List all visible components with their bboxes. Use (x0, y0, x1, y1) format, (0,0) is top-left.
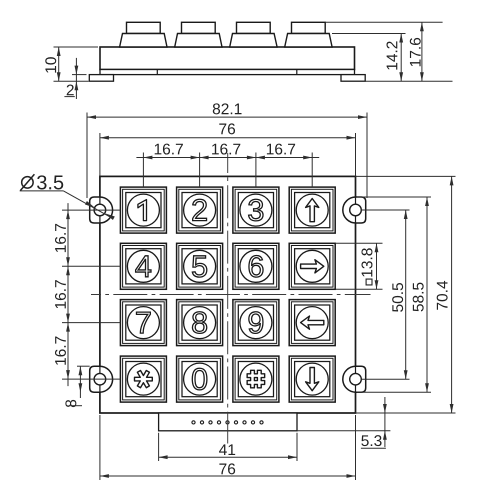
dimension 76 top text (219, 123, 235, 134)
dimension 16.7 text c (267, 144, 295, 155)
bottom-left mounting ear (90, 366, 113, 392)
key up arrow (289, 187, 335, 233)
key 5 (177, 243, 223, 289)
dimension 76 bottom text (219, 463, 235, 474)
dimension 17.6 text (410, 38, 421, 66)
key 1 (120, 187, 166, 233)
vertical centerline (227, 153, 229, 444)
dimension 41 line (159, 456, 297, 458)
row extension lines left (62, 209, 120, 211)
side view bottom strip (100, 70, 355, 75)
bottom-right mounting ear (343, 366, 366, 392)
dimension 58.5 text (413, 283, 424, 312)
diameter 3.5 leader (20, 190, 64, 192)
diameter 3.5 text (37, 175, 63, 189)
dimension 16.7 text a (155, 144, 183, 155)
dimension 14.2 extension lines (332, 33, 406, 35)
mounting hole top-right diameter 3.5 (350, 204, 362, 216)
frame edge through left ears (99, 197, 101, 223)
dimension 13.8 line (376, 243, 378, 289)
mounting hole bottom-left diameter 3.5 (94, 373, 106, 385)
dimension 2 extension line (72, 74, 87, 76)
dimension 2 text (67, 84, 74, 95)
dimension 70.4 text (437, 281, 448, 310)
diameter 3.5 symbol (22, 177, 34, 189)
dimension 16.7 rows line (67, 203, 69, 386)
dimension 16.7 rows text c (55, 337, 66, 365)
side view button 4 trapezoid base (285, 34, 332, 48)
dimension 17.6 extension line (326, 21, 443, 23)
key 6 (233, 243, 279, 289)
dimension 10 text (45, 57, 56, 72)
key 0 (177, 356, 223, 402)
dimension 16.7 columns line (136, 157, 319, 159)
frame edge through right ears (355, 197, 357, 223)
key 4 (120, 243, 166, 289)
dimension 82.1 extension lines (86, 113, 88, 199)
dimension 14.2 line (400, 34, 402, 82)
side view button 3 trapezoid base (230, 34, 277, 48)
top-right mounting ear (343, 197, 366, 223)
dimension 70.4 line (451, 176, 453, 413)
top-left mounting ear (90, 197, 113, 223)
dimension 50.5 extension lines (362, 209, 410, 211)
dimension 70.4 extension lines (356, 175, 456, 177)
key 8 (177, 300, 223, 346)
dimension 58.5 line (426, 197, 428, 392)
side view button 2 trapezoid base (175, 34, 222, 48)
key star (120, 356, 166, 402)
dimension 16.7 rows text a (55, 224, 66, 252)
dimension 17.6 line (421, 22, 423, 81)
key right arrow (289, 243, 335, 289)
side view right mounting tab (341, 75, 365, 82)
dimension 82.1 line (87, 116, 367, 118)
dimension 5.3 extension line (297, 430, 390, 432)
side view button 2 cap (182, 22, 216, 33)
dimension 5.3 line (384, 397, 386, 447)
dimension 14.2 text (386, 41, 397, 69)
dimension 8 line (79, 366, 81, 398)
dimension 76 bottom extension lines (99, 415, 101, 480)
dimension 16.7 rows text b (55, 280, 66, 308)
mounting hole bottom-right diameter 3.5 (350, 373, 362, 385)
dimension 10 line (58, 47, 60, 81)
dimension 76 top line (100, 137, 356, 139)
dimension 76 bottom line (100, 475, 356, 477)
front view frame (100, 176, 356, 413)
side view left mounting tab (89, 75, 113, 82)
key 7 (120, 300, 166, 346)
key 2 (177, 187, 223, 233)
dimension 8 text (65, 400, 76, 407)
dimension 50.5 text (392, 283, 403, 312)
dimension 16.7 column extension lines (142, 153, 144, 188)
key hash (233, 356, 279, 402)
side view button 1 trapezoid base (120, 34, 167, 48)
mounting hole top-left diameter 3.5 (94, 204, 106, 216)
dimension 5.3 text (361, 435, 381, 446)
dimension 2 line (75, 58, 77, 99)
side view button 4 cap (292, 22, 326, 33)
dimension 58.5 extension lines (357, 196, 431, 198)
key 9 (233, 300, 279, 346)
horizontal centerline (91, 294, 371, 296)
dimension 13.8 extension lines (336, 242, 383, 244)
key left arrow (289, 300, 335, 346)
key down arrow (289, 356, 335, 402)
dimension 16.7 text b (212, 144, 240, 155)
dimension 50.5 line (405, 210, 407, 379)
connector strip (159, 413, 297, 431)
dimension 41 text (219, 444, 235, 455)
dimension 76 top extension lines (99, 133, 101, 176)
key 3 (233, 187, 279, 233)
dimension 82.1 text (213, 103, 242, 114)
dimension 41 extension lines (158, 433, 160, 461)
side view button 1 cap (127, 22, 161, 33)
dimension 8 extension line (77, 365, 90, 367)
side view button 3 cap (237, 22, 271, 33)
dimension 13.8 text (361, 248, 372, 285)
side view keypad body plate (100, 47, 355, 70)
dimension 10 extension lines (54, 46, 99, 48)
connector pins (192, 421, 195, 424)
